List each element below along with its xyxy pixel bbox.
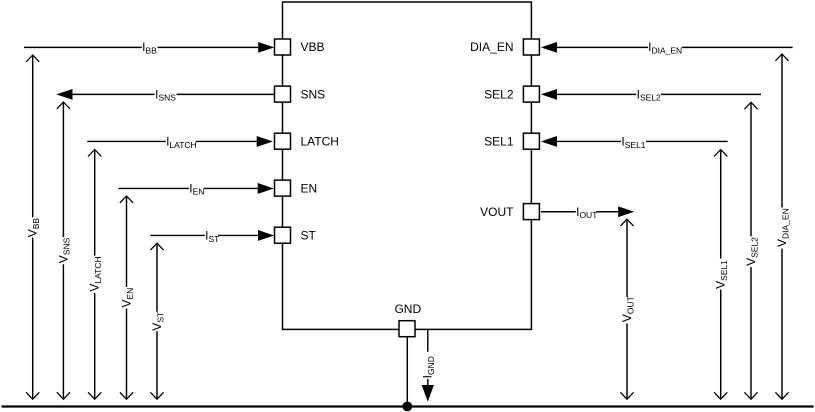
arrowhead ISEL1 into SEL1 bbox=[541, 136, 557, 147]
label IEN bbox=[189, 181, 204, 196]
svg-text:VOUT: VOUT bbox=[480, 205, 514, 219]
label VEN voltage bbox=[119, 288, 134, 308]
label IST bbox=[205, 228, 219, 243]
label ISEL2 bbox=[637, 87, 661, 102]
svg-text:GND: GND bbox=[394, 302, 421, 316]
svg-text:ST: ST bbox=[301, 228, 317, 242]
arrowhead IOUT out of VOUT bbox=[618, 206, 634, 217]
label ISEL1 bbox=[621, 134, 645, 149]
voltage arrow VST bbox=[150, 243, 163, 399]
pin SEL2 square bbox=[523, 86, 539, 102]
voltage arrow VSNS bbox=[57, 102, 70, 399]
voltage arrow VEN bbox=[120, 196, 133, 399]
pin VOUT label bbox=[480, 205, 514, 219]
wire IBB bbox=[24, 46, 258, 48]
wire IDIA_EN bbox=[557, 46, 793, 48]
arrowhead IGND downward bbox=[422, 385, 434, 402]
pin LATCH label bbox=[301, 134, 339, 148]
label IGND bbox=[421, 356, 436, 378]
wire IEN bbox=[118, 187, 257, 189]
arrowhead IBB into VBB bbox=[258, 42, 274, 53]
pin DIA_EN square bbox=[523, 39, 539, 55]
voltage arrow VSEL1 bbox=[714, 150, 727, 400]
voltage arrow VOUT bbox=[620, 219, 633, 399]
svg-text:SNS: SNS bbox=[301, 87, 326, 101]
pin SNS label bbox=[301, 87, 326, 101]
label VLATCH voltage bbox=[88, 256, 103, 291]
label VST voltage bbox=[150, 312, 165, 331]
wire ISNS bbox=[73, 93, 275, 95]
label IOUT bbox=[576, 205, 597, 220]
arrowhead ISEL2 into SEL2 bbox=[541, 89, 557, 100]
label VBB voltage bbox=[26, 218, 41, 238]
arrowhead IDIA_EN into DIA_EN bbox=[541, 42, 557, 53]
pin EN square bbox=[275, 180, 291, 196]
pin VOUT square bbox=[523, 204, 539, 220]
label VOUT voltage bbox=[620, 296, 635, 322]
IC body U1 bbox=[283, 2, 532, 329]
svg-text:LATCH: LATCH bbox=[301, 134, 339, 148]
label VSNS voltage bbox=[56, 237, 71, 263]
wire IGND bbox=[427, 330, 429, 385]
svg-text:SEL1: SEL1 bbox=[484, 134, 514, 148]
pin GND label bbox=[394, 302, 421, 316]
svg-text:EN: EN bbox=[301, 181, 318, 195]
arrowhead ILATCH into LATCH bbox=[257, 136, 273, 147]
pin SEL1 label bbox=[484, 134, 514, 148]
pin DIA_EN label bbox=[470, 40, 513, 54]
arrowhead ISNS out of SNS bbox=[56, 89, 72, 100]
voltage arrow VSEL2 bbox=[744, 102, 757, 399]
label VSEL2 voltage bbox=[744, 237, 759, 266]
pin VBB label bbox=[301, 40, 325, 54]
ground rail bbox=[2, 405, 814, 407]
label VSEL1 voltage bbox=[714, 260, 729, 289]
voltage arrow VLATCH bbox=[88, 150, 101, 400]
wire ISEL2 bbox=[557, 93, 761, 95]
pin LATCH square bbox=[275, 133, 291, 149]
label VDIA_EN voltage bbox=[775, 208, 790, 247]
voltage arrow VBB bbox=[26, 55, 39, 399]
label IDIA_EN bbox=[648, 40, 682, 55]
pin EN label bbox=[301, 181, 318, 195]
pin SEL2 label bbox=[484, 87, 514, 101]
pin ST label bbox=[301, 228, 317, 242]
junction node on ground rail bbox=[402, 402, 412, 412]
wire ISEL1 bbox=[557, 140, 728, 142]
wire GND pin to rail bbox=[406, 337, 408, 407]
pin SEL1 square bbox=[523, 133, 539, 149]
label IBB bbox=[142, 40, 157, 55]
pin ST square bbox=[275, 227, 291, 243]
label ISNS bbox=[155, 87, 176, 102]
label ILATCH bbox=[166, 134, 197, 149]
voltage arrow VDIA_EN bbox=[775, 54, 788, 399]
arrowhead IST into ST bbox=[258, 230, 274, 241]
pin SNS square bbox=[275, 86, 291, 102]
pin VBB square bbox=[275, 39, 291, 55]
wire IOUT bbox=[541, 211, 618, 213]
pin GND square bbox=[399, 321, 415, 337]
arrowhead IEN into EN bbox=[258, 183, 274, 194]
svg-text:SEL2: SEL2 bbox=[484, 87, 514, 101]
wire IST bbox=[150, 234, 258, 236]
svg-text:DIA_EN: DIA_EN bbox=[470, 40, 513, 54]
svg-text:VBB: VBB bbox=[301, 40, 325, 54]
wire ILATCH bbox=[87, 140, 257, 142]
